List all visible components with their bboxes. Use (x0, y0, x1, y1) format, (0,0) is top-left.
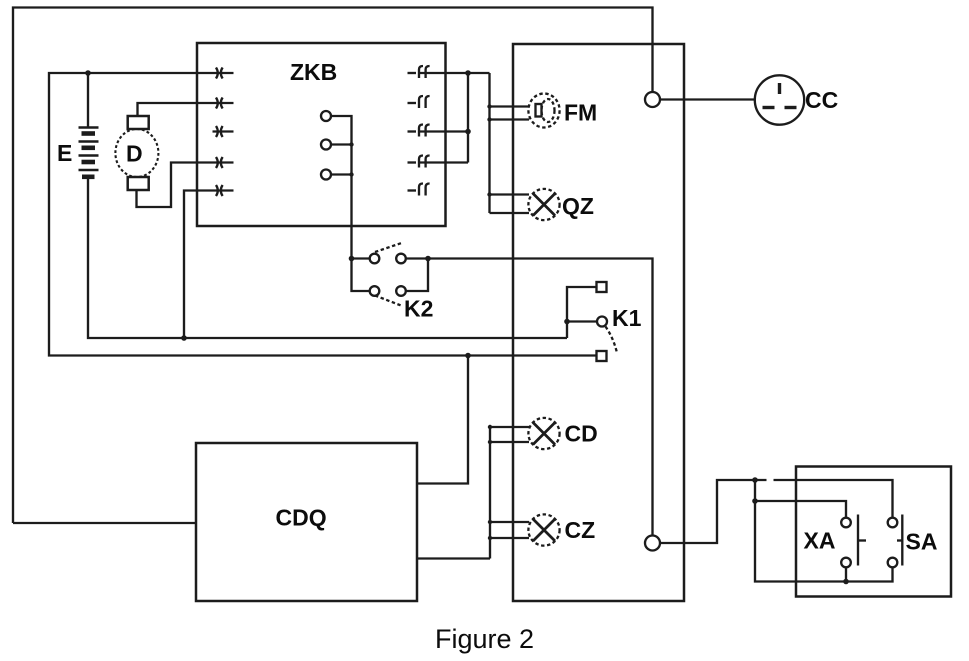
switch K1 bottom throw square (597, 351, 607, 361)
svg-text:E: E (57, 140, 72, 166)
svg-text:ZKB: ZKB (290, 59, 337, 85)
wire lamp bus vertical x=490 lower (489, 427, 491, 559)
svg-text:Figure 2: Figure 2 (435, 624, 534, 654)
switch unit box XA/SA (796, 467, 951, 597)
svg-text:SA: SA (906, 529, 938, 555)
wire D bottom lead to ZKB row4 (137, 163, 234, 208)
panel box middle (513, 44, 684, 601)
switch K2 wiring: common from coil vertical (352, 259, 370, 292)
motor D brush bottom rectangle (128, 177, 149, 190)
pushbutton XA actuator (857, 515, 859, 566)
svg-text:CC: CC (805, 87, 838, 113)
ZKB left contact row2 (216, 98, 223, 109)
wire battery top lead (87, 73, 89, 127)
ZKB coil terminal circle 1 (321, 111, 331, 121)
terminal circle bottom (645, 536, 660, 551)
wire terminal to socket CC (660, 98, 755, 100)
wire CD leads (490, 426, 529, 428)
svg-text:CDQ: CDQ (276, 505, 327, 531)
ZKB right contact row4 (408, 156, 430, 168)
motor D body circle (115, 129, 158, 177)
svg-text:QZ: QZ (562, 193, 594, 219)
wire lamp bus vertical x=489.5 (488, 73, 490, 213)
ZKB right contact row3 (408, 125, 430, 137)
relay box ZKB (197, 43, 446, 226)
pushbutton XA contacts (841, 518, 851, 528)
wire XA bottom stub (845, 567, 847, 581)
wire branch down to XA top (755, 480, 893, 582)
lamp CZ (528, 514, 559, 545)
lamp CD (528, 418, 559, 449)
ZKB left contact row3 (213, 126, 234, 137)
terminal circle top (645, 92, 660, 107)
wire coil terminals to common vertical (331, 116, 352, 259)
buzzer FM inner element (536, 104, 542, 117)
pushbutton SA actuator (901, 515, 903, 566)
node dot (468,73) (465, 70, 471, 76)
wire outer loop: top border from supply to terminal (13, 8, 653, 524)
wire K1 pole lead (567, 320, 597, 322)
node junction dot (184,338) (181, 335, 187, 341)
wire right row4 out (419, 161, 468, 163)
wire ZKB row5 to pole line (184, 191, 234, 339)
svg-text:K2: K2 (404, 296, 433, 322)
socket CC circle (755, 75, 804, 124)
wire K2 to lower terminal: long run right then down (428, 259, 653, 536)
wire FM leads (490, 105, 530, 107)
wire row1 bus: left vertical x=49 down to K1 bottom line (49, 73, 596, 356)
svg-text:K1: K1 (612, 305, 642, 331)
switch K2 lever bottom (375, 296, 401, 306)
switch K1 lever (606, 327, 618, 354)
node dot (428,258.5) (425, 256, 431, 262)
svg-text:D: D (126, 141, 143, 167)
motor D brush top rectangle (128, 116, 149, 129)
wire feed continues to SA top (after small gap) (774, 480, 893, 518)
node dot (567,321.5) (564, 319, 570, 325)
wire CDQ upper output to K1 bottom line (417, 356, 468, 484)
wire CZ leads (490, 521, 529, 523)
svg-text:FM: FM (564, 100, 597, 126)
ZKB left contact row1 (216, 68, 223, 79)
switch K1 pole circle (597, 317, 607, 327)
ZKB coil terminal circle 3 (321, 170, 331, 180)
switch K1 top throw square (597, 282, 607, 292)
ZKB left contact row4 (216, 157, 223, 168)
buzzer FM circle (528, 94, 559, 128)
wire bottom terminal to XA/SA feed (660, 480, 767, 543)
ZKB right contact row1 (408, 66, 430, 78)
ZKB left contact row5 (216, 185, 223, 196)
wire vertical tie x=468 (467, 73, 469, 163)
wire K2 right side tie (406, 259, 428, 292)
node junction dot at battery top (88,73) (85, 70, 91, 76)
pushbutton SA contacts (888, 518, 898, 528)
node dot on K1 bottom line (468,355.5) (465, 353, 471, 359)
wire D top lead to ZKB row2 (138, 103, 234, 116)
battery E plates (79, 128, 99, 177)
wire battery bottom lead down and right to K1 pole line (88, 179, 567, 338)
svg-text:CZ: CZ (565, 517, 596, 543)
socket CC pin marks (763, 83, 797, 108)
switch K2 lever top (375, 243, 403, 253)
wire right row3 out (419, 130, 468, 132)
charger box CDQ (196, 443, 417, 601)
switch K2 contact circles top (370, 254, 380, 264)
wire CDQ left feed (13, 522, 196, 524)
node dot (755,480) (752, 477, 758, 483)
svg-text:XA: XA (804, 528, 836, 554)
ZKB right contact row5 (408, 184, 430, 196)
wire QZ leads (490, 193, 530, 195)
ZKB coil terminal circle 2 (321, 140, 331, 150)
node dot (351.5,258.5) (349, 256, 355, 262)
node dot (846,581.5) (843, 579, 849, 585)
ZKB right contact row2 (408, 96, 430, 108)
svg-text:CD: CD (565, 421, 598, 447)
wire K1 top throw to tie (567, 287, 597, 338)
node dot (468,131.5) (465, 129, 471, 135)
switch K2 contact circles bottom (370, 286, 380, 296)
wire CDQ lower output (417, 557, 490, 559)
wire right row1 out to lamp bus (419, 72, 490, 74)
lamp QZ (528, 189, 559, 220)
